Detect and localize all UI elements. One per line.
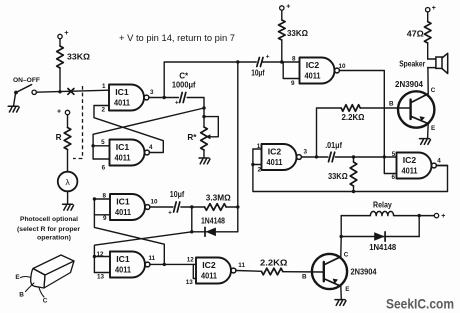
- photocell lamp symbol: [58, 172, 78, 192]
- svg-text:10: 10: [339, 63, 347, 70]
- svg-text:33KΩ: 33KΩ: [328, 172, 348, 181]
- svg-text:10: 10: [151, 199, 159, 206]
- wire cap to R* node: [187, 98, 204, 128]
- svg-text:C: C: [43, 298, 48, 305]
- svg-text:+: +: [286, 3, 290, 10]
- svg-text:3: 3: [304, 149, 308, 156]
- op IC2 gate D (pins 12,13 out 11): [196, 258, 231, 284]
- op IC2 gate C (pins 5,6 out 4): [397, 153, 432, 179]
- op IC2 gate A (pins 8,9 out 10): [300, 58, 335, 84]
- svg-text:13: 13: [97, 273, 105, 280]
- X mark (photocell option point): [68, 89, 74, 95]
- resistor 33K (tone): [353, 157, 355, 162]
- svg-text:10μf: 10μf: [251, 68, 265, 77]
- svg-text:E: E: [15, 274, 20, 281]
- wire long vertical feedback: [237, 62, 239, 232]
- svg-text:12: 12: [96, 251, 104, 258]
- wire + supply (speaker): [426, 8, 430, 12]
- ground (Q1 emitter): [420, 138, 430, 140]
- wire IC1 pin2 cross-couple to gate B output: [94, 106, 163, 153]
- svg-text:Relay: Relay: [373, 201, 392, 210]
- op IC1 gate B (pins 5,6 out 4): [110, 140, 145, 166]
- transistor Q2 2N3904 (relay driver): [312, 254, 347, 289]
- svg-text:4011: 4011: [201, 272, 218, 281]
- op IC2 gate B (pins 1,2 out 3): [262, 144, 297, 170]
- svg-text:4: 4: [437, 157, 441, 164]
- svg-text:9: 9: [291, 80, 295, 87]
- ground (switch): [14, 94, 16, 106]
- svg-text:R: R: [56, 133, 62, 142]
- svg-text:4: 4: [149, 144, 153, 151]
- svg-text:10μf: 10μf: [170, 190, 185, 199]
- svg-text:IC2: IC2: [403, 156, 417, 165]
- ground (photocell): [67, 191, 69, 204]
- svg-text:33KΩ: 33KΩ: [287, 29, 308, 38]
- svg-text:4011: 4011: [267, 158, 284, 167]
- svg-text:Speaker: Speaker: [399, 59, 426, 68]
- svg-text:11: 11: [149, 255, 156, 262]
- wire Q2 collector to relay: [340, 237, 342, 257]
- resistor 33K (top-left): [57, 46, 64, 68]
- transistor Q1 2N3904 (speaker driver): [398, 91, 434, 127]
- wire + supply (IC2 top): [280, 6, 284, 10]
- svg-text:C: C: [344, 251, 349, 258]
- wire relay right leg: [418, 216, 420, 237]
- op IC1 gate C (pins 8,9 out 10): [110, 194, 145, 220]
- svg-text:1000μf: 1000μf: [172, 81, 196, 90]
- wire cap to 3.3M node: [181, 206, 205, 208]
- wire IC2 pins 8-9 tie: [283, 62, 299, 79]
- wire IC1 out11 to IC2 gate D input: [150, 263, 196, 265]
- diode 1N4148 (flyback): [341, 236, 419, 238]
- svg-text:IC1: IC1: [116, 255, 130, 264]
- svg-text:+: +: [168, 210, 172, 217]
- svg-text:4011: 4011: [115, 266, 132, 275]
- wire IC2 pins1-2 tie to feedback rail: [253, 149, 448, 192]
- dashed separation line: [73, 86, 83, 159]
- wire speaker to collector: [427, 68, 429, 94]
- ground (R*): [199, 157, 209, 159]
- svg-text:4011: 4011: [115, 208, 132, 217]
- svg-text:.01μf: .01μf: [325, 141, 342, 150]
- svg-text:IC1: IC1: [116, 143, 130, 152]
- resistor 33K (IC2 bias): [279, 20, 286, 40]
- svg-text:C: C: [431, 87, 436, 94]
- wire up from gate A output to top rail: [164, 62, 256, 98]
- svg-text:IC2: IC2: [202, 261, 216, 270]
- svg-text:2: 2: [257, 166, 261, 173]
- svg-text:1: 1: [102, 83, 106, 90]
- speaker: [428, 58, 436, 60]
- svg-text:5: 5: [392, 151, 396, 158]
- svg-text:13: 13: [186, 279, 194, 286]
- svg-text:12: 12: [187, 256, 195, 263]
- potentiometer R*: [201, 127, 208, 150]
- svg-text:11: 11: [238, 262, 245, 269]
- svg-text:(select R for proper: (select R for proper: [17, 226, 80, 233]
- svg-text:operation): operation): [37, 235, 71, 242]
- wire cap to 33K node: [262, 61, 299, 63]
- svg-text:4011: 4011: [114, 99, 131, 108]
- wire IC1 out10 node: [150, 206, 173, 208]
- svg-text:4011: 4011: [402, 167, 419, 176]
- svg-text:2.2KΩ: 2.2KΩ: [260, 259, 288, 268]
- svg-text:IC1: IC1: [116, 198, 130, 207]
- wire IC2 out11 to 2.2K: [236, 270, 262, 273]
- svg-text:+: +: [432, 5, 436, 12]
- ground (Q2 emitter): [335, 299, 345, 301]
- capacitor C* 1000uf: [180, 93, 183, 103]
- capacitor 10uf (bottom): [174, 202, 177, 212]
- svg-text:+: +: [175, 99, 179, 106]
- svg-text:IC2: IC2: [306, 61, 320, 70]
- svg-text:8: 8: [292, 56, 296, 63]
- wire IC1 pins8-9 tie to gate D output: [94, 199, 164, 264]
- resistor 2.2K (top): [341, 105, 360, 112]
- svg-text:IC1: IC1: [115, 88, 129, 97]
- svg-text:E: E: [345, 286, 349, 293]
- svg-text:47Ω: 47Ω: [407, 30, 424, 39]
- wire cap to pin5 node: [335, 156, 384, 158]
- svg-text:SeekIC.com: SeekIC.com: [386, 297, 454, 312]
- wire cross-couple to IC1 gate B inputs: [93, 108, 204, 159]
- svg-text:1N4148: 1N4148: [201, 217, 225, 226]
- svg-text:2.2KΩ: 2.2KΩ: [342, 113, 365, 122]
- svg-text:B: B: [19, 292, 24, 299]
- transistor package drawing (E B C): [33, 255, 74, 275]
- svg-text:C*: C*: [179, 72, 189, 81]
- svg-text:B: B: [302, 274, 307, 281]
- svg-text:+ V to pin 14, return to pin 7: + V to pin 14, return to pin 7: [119, 33, 235, 43]
- svg-text:2: 2: [101, 107, 105, 114]
- wire Q2 emitter to ground: [340, 286, 343, 299]
- wire cap node down to diode branch: [191, 207, 193, 232]
- svg-text:IC2: IC2: [268, 148, 282, 157]
- wire relay left leg: [340, 216, 342, 237]
- svg-text:Photocell optional: Photocell optional: [20, 216, 78, 223]
- svg-text:33KΩ: 33KΩ: [67, 53, 90, 62]
- wire 2.2K to Q2 base: [283, 271, 324, 273]
- wire IC2 out4 to feedback rail: [436, 165, 447, 167]
- svg-text:5: 5: [101, 139, 105, 146]
- op IC1 gate D (pins 12,13 out 11): [110, 252, 145, 278]
- resistor 2.2K (bottom): [262, 268, 283, 275]
- svg-text:4011: 4011: [115, 154, 132, 163]
- wire gate A output node: [149, 97, 179, 99]
- svg-text:E: E: [431, 125, 435, 132]
- op IC1 gate A (pins 1,2 out 3): [109, 85, 144, 111]
- svg-text:+: +: [266, 54, 270, 61]
- wire emitter to ground: [427, 124, 430, 139]
- svg-text:6: 6: [102, 165, 106, 172]
- svg-text:3.3MΩ: 3.3MΩ: [206, 193, 231, 202]
- svg-text:ON–OFF: ON–OFF: [13, 77, 40, 84]
- resistor 3.3M: [205, 204, 227, 211]
- wire switch to IC1 pin 1: [36, 90, 109, 92]
- wire cross-couple to IC1 gate D inputs: [94, 232, 191, 273]
- svg-text:9: 9: [103, 215, 107, 222]
- wire IC2 out10 down to gate C inputs: [339, 71, 398, 174]
- resistor 47 ohm: [424, 22, 431, 43]
- svg-text:B: B: [389, 100, 394, 107]
- svg-text:2N3904: 2N3904: [351, 268, 377, 277]
- svg-text:+: +: [64, 28, 69, 37]
- svg-text:4011: 4011: [305, 72, 322, 81]
- svg-text:1N4148: 1N4148: [369, 243, 396, 252]
- diode 1N4148 (timing): [192, 231, 238, 233]
- resistor R (photocell select): [64, 128, 71, 150]
- svg-text:+: +: [57, 109, 61, 116]
- capacitor .01uf: [329, 152, 332, 162]
- wire IC2 out3 node: [301, 156, 328, 158]
- svg-text:6: 6: [391, 174, 395, 181]
- svg-text:λ: λ: [65, 177, 70, 187]
- wire base resistor 2.2K to Q1: [317, 108, 342, 157]
- wire + supply top-left: [58, 34, 62, 38]
- wire + terminal of R branch: [65, 110, 69, 114]
- svg-text:2N3904: 2N3904: [395, 80, 423, 89]
- svg-text:+: +: [441, 213, 445, 220]
- capacitor 10uf (top): [255, 61, 257, 63]
- svg-text:3: 3: [150, 89, 154, 96]
- svg-text:R*: R*: [187, 133, 197, 142]
- wire IC2 pins 12-13 tie: [193, 264, 196, 278]
